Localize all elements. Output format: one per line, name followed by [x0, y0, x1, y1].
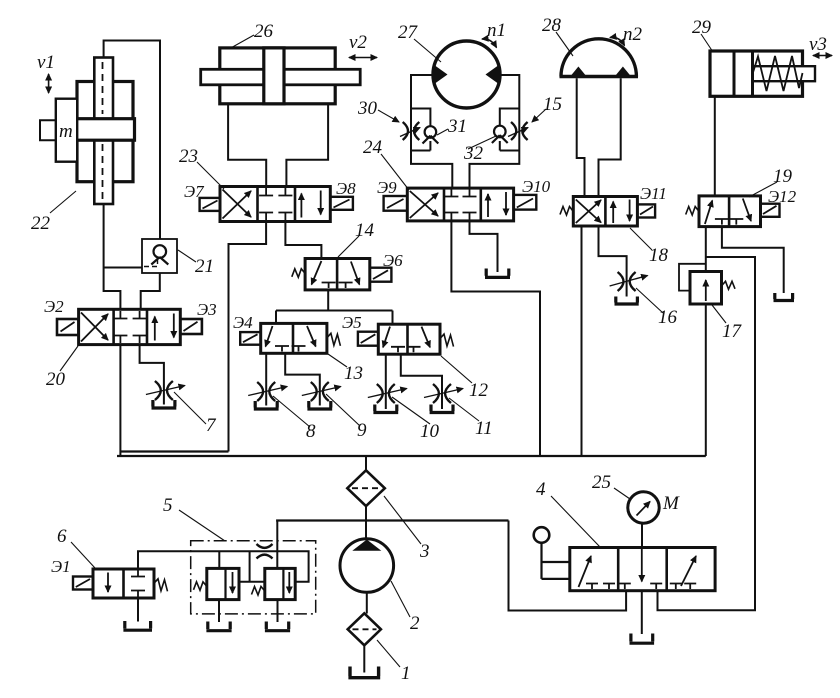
tank under valve 4	[630, 634, 655, 644]
label Э8	[336, 179, 356, 198]
wire valve6 to tank	[137, 598, 139, 622]
pilot check valve 21	[142, 239, 177, 273]
label 1	[401, 663, 411, 684]
arrow v1	[48, 74, 50, 93]
upper connector line	[120, 450, 228, 452]
wire branch to far right riser	[658, 257, 756, 610]
svg-text:28: 28	[542, 15, 562, 36]
svg-text:Э3: Э3	[197, 300, 217, 319]
relief valve 17	[679, 264, 735, 304]
label 11	[475, 418, 493, 439]
leader 12	[441, 356, 472, 383]
leader 11	[449, 398, 479, 421]
svg-text:M: M	[662, 493, 680, 514]
spring valve13	[327, 333, 341, 346]
wire valve4 center port to tank	[641, 591, 643, 634]
wire valve18 right port to throttle 16	[599, 226, 627, 297]
mass m bracket	[40, 99, 77, 162]
label Э12	[768, 187, 797, 206]
leader 2	[391, 581, 410, 617]
wire relief 5b to tank	[277, 600, 279, 622]
solenoid E9	[384, 196, 408, 211]
svg-text:19: 19	[773, 166, 793, 187]
svg-text:Э12: Э12	[768, 187, 797, 206]
leader 5	[179, 510, 225, 541]
gauge 25	[628, 492, 659, 548]
arrow v3	[813, 55, 832, 57]
valve 19 body	[699, 196, 761, 227]
leader 32	[468, 136, 496, 149]
svg-text:Э11: Э11	[640, 184, 667, 203]
wire valve19 right port to tank	[722, 227, 784, 293]
wire motor27 right check branch	[500, 109, 520, 151]
arrow n2	[610, 37, 625, 45]
label Э9	[377, 178, 397, 197]
tank under throttle 7	[152, 400, 177, 408]
solenoid E8	[330, 197, 353, 210]
solenoid E11	[637, 204, 655, 217]
valve 13 body	[261, 323, 327, 353]
label 17	[722, 321, 743, 342]
label n2	[623, 24, 643, 45]
leader 8	[273, 396, 310, 427]
label 27	[398, 22, 419, 43]
pump 2	[340, 539, 394, 593]
wire valve21 bottom to valve 20	[141, 273, 160, 309]
tank under valve 24	[485, 269, 510, 278]
wire valve20 right port to throttle 7	[140, 345, 164, 405]
leader 25	[614, 488, 630, 499]
wire motor28 left to valve 18	[577, 78, 585, 196]
svg-text:22: 22	[31, 213, 51, 234]
label 20	[46, 369, 66, 390]
wire motor28 right to valve 18	[599, 78, 621, 196]
leader 13	[328, 354, 347, 367]
valve 4 body	[570, 548, 715, 591]
spring valve14	[292, 269, 305, 278]
svg-text:Э9: Э9	[377, 178, 397, 197]
svg-text:13: 13	[344, 363, 363, 384]
label 21	[195, 256, 214, 277]
throttle 30	[400, 122, 420, 140]
label Э1	[51, 557, 71, 576]
label 7	[206, 415, 217, 436]
spring valve18	[560, 207, 573, 216]
wire cylinder29 to valve 19	[714, 96, 716, 196]
wire motor27 left line	[411, 75, 452, 188]
filter 1	[348, 613, 381, 645]
leader 7	[174, 392, 206, 424]
svg-text:Э10: Э10	[522, 177, 551, 196]
label 18	[649, 245, 669, 266]
check valve 31	[423, 126, 439, 143]
svg-text:Э5: Э5	[342, 313, 362, 332]
wire valve24 left port to rail	[451, 221, 540, 456]
wire valve19 left port down to relief 17	[705, 227, 707, 272]
label 5	[163, 495, 173, 516]
label 13	[344, 363, 363, 384]
tank under throttle 8	[254, 401, 279, 409]
leader 30	[378, 110, 399, 122]
svg-text:16: 16	[658, 307, 678, 328]
svg-text:24: 24	[363, 137, 383, 158]
label 6	[57, 526, 67, 547]
label Э3	[197, 300, 217, 319]
cylinder C22	[76, 58, 135, 205]
leader 23	[197, 162, 224, 189]
spring relief 5a	[194, 582, 207, 591]
wire motor27 right line	[470, 75, 520, 188]
svg-text:18: 18	[649, 245, 669, 266]
solenoid E5	[358, 332, 378, 346]
svg-text:n1: n1	[487, 20, 506, 41]
wire valve12 right port to throttle 11	[401, 354, 442, 409]
leader 10	[392, 397, 430, 424]
tank under throttle 16	[615, 297, 639, 305]
tank under relief 5a	[206, 622, 231, 631]
svg-text:26: 26	[254, 21, 274, 42]
svg-text:21: 21	[195, 256, 214, 277]
label Э11	[640, 184, 667, 203]
label 22	[31, 213, 51, 234]
main rail line A	[117, 455, 706, 457]
leader 3	[384, 496, 421, 544]
leader 18	[630, 228, 652, 250]
label Э10	[522, 177, 551, 196]
label 23	[179, 146, 198, 167]
label 24	[363, 137, 383, 158]
tank under valve 6	[123, 621, 152, 630]
label m	[59, 121, 73, 142]
arrow n1	[482, 39, 497, 48]
svg-text:n2: n2	[623, 24, 643, 45]
svg-text:11: 11	[475, 418, 493, 439]
leader 15	[532, 109, 546, 122]
svg-text:Э8: Э8	[336, 179, 356, 198]
wire motor27 left check branch	[411, 109, 430, 151]
cylinder C29	[710, 51, 815, 96]
valve 18 body	[573, 197, 637, 227]
motor M27	[433, 41, 500, 108]
tank under throttle 10	[373, 405, 398, 413]
wire valve20 left port to rail	[119, 345, 121, 456]
valve 12 body	[378, 324, 440, 354]
wire pump to filter 1	[366, 592, 368, 613]
throttle 10	[368, 384, 407, 403]
wire between relief squares	[239, 551, 265, 582]
tank under valve 19	[774, 293, 795, 301]
wire valve13 left port to throttle 8	[265, 353, 267, 405]
svg-text:20: 20	[46, 369, 66, 390]
funnel wire cylinder 26 to valve 23	[228, 104, 328, 187]
throttle 16	[610, 272, 648, 291]
svg-text:2: 2	[410, 613, 420, 634]
arrow v2	[349, 57, 377, 59]
tank under throttle 9	[307, 401, 332, 409]
label Э7	[184, 182, 205, 201]
solenoid E6	[370, 268, 392, 282]
wire valve14 bottom split to valves 13 and 12	[276, 290, 393, 324]
label Э4	[233, 313, 253, 332]
wire valve18 left port to rail	[581, 226, 583, 456]
leader 17	[712, 305, 726, 323]
throttle 15	[508, 122, 528, 140]
svg-text:8: 8	[306, 421, 316, 442]
leader 19	[749, 182, 777, 197]
leader 22	[50, 191, 76, 213]
cylinder C26	[201, 48, 361, 104]
throttle 7	[146, 381, 185, 400]
wire relief17 to rail	[705, 304, 707, 456]
throttle 9	[302, 382, 341, 401]
pressure line B	[276, 519, 508, 521]
lever of valve 4	[534, 527, 570, 579]
check valve 32	[492, 126, 508, 143]
leader 16	[636, 288, 663, 313]
wire cylinder22 top to check valve 21	[104, 41, 160, 240]
spring valve6	[154, 579, 168, 592]
valve 14 body	[305, 259, 370, 290]
leader 31	[437, 129, 448, 135]
label Э5	[342, 313, 362, 332]
leader 21	[178, 250, 196, 262]
tank under throttle 11	[430, 405, 455, 413]
svg-text:4: 4	[536, 479, 546, 500]
svg-text:Э4: Э4	[233, 313, 253, 332]
wire valve12 left port to throttle 10	[385, 354, 387, 409]
leader 9	[326, 394, 360, 426]
leader 20	[60, 346, 78, 371]
spring valve19	[686, 207, 699, 216]
leader 26	[229, 35, 254, 49]
svg-text:v1: v1	[37, 52, 55, 73]
wire filter3 to pump	[365, 506, 367, 539]
motor M28 semi-rotary	[560, 39, 639, 77]
wire valve23 right port to valve 14	[285, 222, 321, 259]
leader 4	[551, 496, 600, 547]
spring relief 5b	[252, 587, 265, 596]
label 31	[447, 116, 467, 137]
filter 3	[347, 456, 385, 506]
solenoid E12	[761, 204, 780, 217]
label 4	[536, 479, 546, 500]
label Э2	[44, 297, 64, 316]
leader 27	[414, 39, 441, 62]
solenoid E1	[73, 577, 93, 590]
svg-text:v2: v2	[349, 32, 367, 53]
label 8	[306, 421, 316, 442]
solenoid E2	[57, 319, 79, 335]
label 19	[773, 166, 793, 187]
svg-text:15: 15	[543, 94, 562, 115]
wire cylinder22 bottom rod to valve 20	[104, 204, 121, 309]
svg-text:Э7: Э7	[184, 182, 205, 201]
label 32	[463, 143, 484, 164]
leader 6	[71, 542, 95, 568]
label M	[662, 493, 680, 514]
block 5 dash-dot enclosure	[191, 541, 316, 614]
solenoid E3	[180, 319, 202, 334]
label 9	[357, 420, 367, 441]
svg-text:7: 7	[206, 415, 217, 436]
valve 6 body	[93, 569, 154, 598]
label 26	[254, 21, 274, 42]
svg-text:9: 9	[357, 420, 367, 441]
svg-text:23: 23	[179, 146, 198, 167]
label v3	[809, 34, 827, 55]
label v2	[349, 32, 367, 53]
solenoid E10	[514, 195, 537, 210]
wire line B to valve 4	[509, 521, 627, 611]
throttle 11	[424, 384, 463, 403]
relief square 5a	[207, 568, 239, 599]
valve 23 body	[220, 187, 330, 222]
leader 28	[556, 32, 573, 56]
svg-text:5: 5	[163, 495, 173, 516]
svg-text:25: 25	[592, 472, 611, 493]
label 28	[542, 15, 562, 36]
svg-text:30: 30	[357, 98, 378, 119]
spring valve12	[440, 334, 454, 347]
label n1	[487, 20, 506, 41]
wire valve13 right port to throttle 9	[285, 353, 320, 405]
leader 1	[377, 640, 400, 667]
wire valve24 right port to tank	[470, 221, 498, 272]
label 15	[543, 94, 562, 115]
relief square 5b	[265, 568, 295, 599]
label 12	[469, 380, 489, 401]
tank under relief 5b	[265, 622, 290, 631]
label 14	[355, 220, 375, 241]
leader 29	[701, 34, 713, 52]
label Э6	[383, 251, 403, 270]
svg-text:6: 6	[57, 526, 67, 547]
wire relief 5a to tank	[218, 600, 220, 622]
tank under pump	[348, 667, 380, 678]
label 25	[592, 472, 611, 493]
solenoid E7	[200, 198, 220, 211]
svg-text:Э1: Э1	[51, 557, 71, 576]
label 3	[419, 541, 430, 562]
wire pilot line to check valve 21	[104, 267, 142, 269]
wire pressure line B down to relief square	[276, 521, 278, 569]
valve 24 body	[407, 188, 513, 221]
wire filter1 to tank	[363, 645, 365, 672]
leader 24	[381, 154, 409, 190]
leader 14	[338, 236, 359, 257]
label 30	[357, 98, 378, 119]
label 2	[410, 613, 420, 634]
svg-text:31: 31	[447, 116, 467, 137]
svg-text:v3: v3	[809, 34, 827, 55]
svg-text:Э2: Э2	[44, 297, 64, 316]
label 16	[658, 307, 678, 328]
svg-text:m: m	[59, 121, 73, 142]
wire to left relief square	[218, 551, 220, 568]
label 10	[420, 421, 440, 442]
svg-text:Э6: Э6	[383, 251, 403, 270]
wire valve6 top pilot line through block	[138, 551, 309, 582]
svg-text:17: 17	[722, 321, 743, 342]
label v1	[37, 52, 55, 73]
damping orifice in block 5	[257, 544, 273, 559]
solenoid E4	[240, 332, 261, 345]
label 29	[692, 17, 712, 38]
svg-text:12: 12	[469, 380, 489, 401]
wire valve23 left port to left rail	[229, 222, 267, 452]
throttle 8	[248, 382, 287, 401]
svg-text:1: 1	[401, 663, 411, 684]
valve 20 body	[79, 309, 181, 344]
